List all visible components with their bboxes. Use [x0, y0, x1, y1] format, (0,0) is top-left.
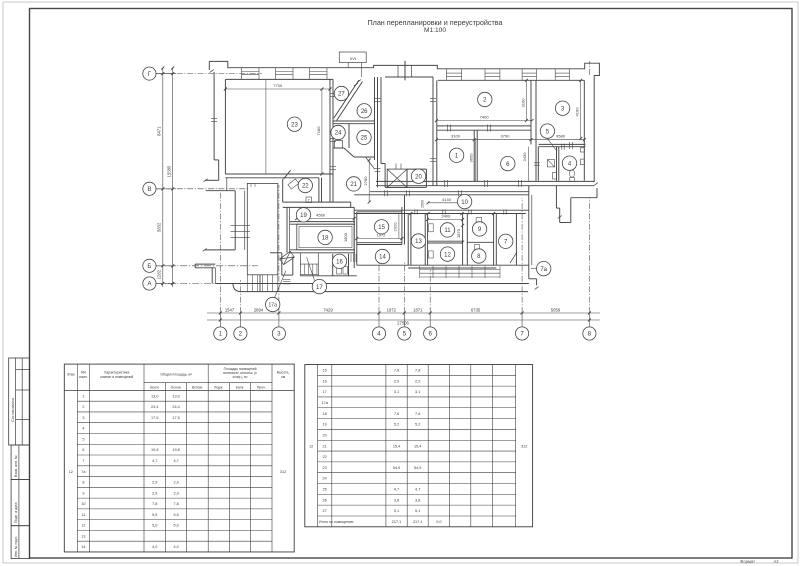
room area table part 1 [64, 364, 294, 552]
svg-text:Б: Б [147, 263, 151, 270]
dimension 7400 room 2 [436, 120, 532, 122]
room 7 right wall [515, 214, 517, 266]
dimension 3650 vertical room 1 [475, 140, 477, 182]
svg-text:21: 21 [350, 182, 357, 188]
room 16 circle [332, 254, 346, 268]
corridor 10 bottom wall [354, 209, 529, 211]
svg-text:17а: 17а [321, 401, 328, 405]
svg-text:В: В [147, 186, 151, 193]
axis 3 line [278, 185, 280, 313]
rooms 15 14 walls [353, 207, 355, 268]
svg-text:26: 26 [361, 109, 368, 115]
dimension 2780 vertical room 21 [368, 160, 370, 202]
svg-text:3430: 3430 [522, 152, 527, 162]
svg-text:20: 20 [323, 433, 327, 437]
entrance corridor bottom wall [300, 275, 356, 277]
wall between rooms 24 25 [348, 124, 350, 148]
room 23 bottom wall [225, 173, 333, 175]
room 7 door diagonal [510, 252, 517, 263]
svg-text:19: 19 [323, 423, 327, 427]
svg-text:3,8: 3,8 [394, 498, 399, 502]
svg-text:7400: 7400 [480, 114, 490, 119]
svg-text:3: 3 [277, 331, 281, 338]
svg-text:NN: NN [81, 371, 86, 375]
wall right of room 23 [329, 79, 331, 174]
svg-text:Г: Г [148, 71, 152, 78]
steps right of room 16 [350, 254, 352, 262]
svg-text:7,8: 7,8 [152, 502, 157, 506]
wall between rooms 15 14 [357, 242, 402, 244]
room 27 circle [334, 86, 348, 100]
svg-text:1870: 1870 [456, 228, 461, 238]
svg-text:217,1: 217,1 [413, 520, 423, 524]
dimension 3100 vertical rooms 2-3 [525, 80, 527, 120]
svg-text:27506: 27506 [397, 320, 409, 325]
room 1 circle [449, 148, 463, 162]
svg-text:6: 6 [428, 331, 432, 338]
svg-text:0,0: 0,0 [436, 520, 441, 524]
side stamp Подп. и дата block [11, 480, 29, 526]
axis marker 7 [516, 327, 529, 340]
svg-text:1800: 1800 [343, 232, 348, 242]
dimension 1870 vertical room 11 [461, 224, 464, 227]
left porch stub wall [195, 263, 215, 265]
svg-text:15585: 15585 [167, 165, 172, 177]
svg-text:Высота,: Высота, [277, 371, 290, 375]
lower block bottom wall [408, 264, 529, 266]
room 2 circle [478, 92, 492, 106]
wall between rooms 1 6 [473, 130, 475, 181]
leader line room 17 [307, 257, 315, 280]
svg-text:8: 8 [82, 481, 84, 485]
svg-text:2780: 2780 [363, 176, 368, 186]
svg-text:23: 23 [291, 122, 298, 128]
left wall inner [224, 79, 226, 174]
axis marker А [143, 277, 156, 290]
svg-text:Основ.: Основ. [171, 385, 182, 389]
svg-text:5,5: 5,5 [173, 513, 178, 517]
axis line Г dash-dot [156, 73, 262, 75]
svg-text:5,1: 5,1 [394, 509, 399, 513]
svg-text:Этаж: Этаж [67, 373, 76, 377]
svg-text:2,9: 2,9 [173, 491, 178, 495]
apartments bottom wall [376, 180, 594, 182]
wall under rooms 3 5 [539, 143, 586, 145]
svg-text:17,5: 17,5 [172, 416, 179, 420]
dimension 2400 room 11 [428, 219, 463, 221]
svg-text:3100: 3100 [451, 134, 461, 139]
wall between rooms 9 8 [467, 241, 493, 243]
toilet room 4 [570, 178, 575, 182]
svg-text:312: 312 [280, 470, 286, 474]
top wall outer edge [209, 61, 599, 75]
top wall inner edge left [225, 78, 333, 80]
room 20 circle [411, 169, 425, 183]
svg-text:5,0: 5,0 [152, 524, 157, 528]
svg-text:14: 14 [379, 255, 386, 261]
svg-text:2,9: 2,9 [173, 481, 178, 485]
svg-text:Вспом.: Вспом. [192, 385, 203, 389]
svg-text:6735: 6735 [471, 307, 481, 312]
room 24 circle [331, 125, 345, 139]
room 14 circle [375, 249, 389, 263]
svg-text:4,7: 4,7 [394, 488, 399, 492]
axis marker 6 [424, 327, 437, 340]
dimension 2320 vertical room 15 [398, 214, 400, 239]
axis marker 8 [583, 327, 596, 340]
svg-text:1871: 1871 [413, 307, 423, 312]
right wall inner [583, 80, 585, 180]
svg-text:4,7: 4,7 [152, 459, 157, 463]
section mark XVI [339, 52, 366, 63]
svg-text:7,6: 7,6 [394, 412, 399, 416]
door ticks room 4 [561, 144, 563, 150]
svg-text:2: 2 [239, 331, 243, 338]
svg-text:19: 19 [300, 213, 307, 219]
vent ticks shaft top [395, 164, 397, 170]
svg-text:24,4: 24,4 [151, 405, 158, 409]
dimension 4190 vertical room 3 [580, 80, 582, 138]
bathroom block left wall [537, 147, 539, 181]
svg-text:7730: 7730 [273, 83, 283, 88]
right wall bottom stoop [555, 186, 557, 208]
dimension 7730 room 23 [225, 88, 330, 90]
svg-text:19,8: 19,8 [172, 448, 179, 452]
room 7а circle [537, 261, 551, 275]
dimension 4560 corridor 19 [297, 218, 354, 220]
room 22 walls [318, 178, 320, 202]
bottom dimension line 2 total [207, 319, 600, 321]
corridor 17 steps [300, 263, 318, 265]
svg-text:Общая площадь, м²: Общая площадь, м² [160, 373, 192, 377]
svg-text:А: А [147, 281, 152, 288]
svg-text:15,4: 15,4 [393, 444, 400, 448]
staircase window [231, 225, 251, 227]
svg-text:2400: 2400 [441, 214, 451, 219]
axis marker Г [143, 67, 156, 80]
svg-text:План перепланировки и переустр: План перепланировки и переустройства [367, 18, 502, 27]
svg-text:54,9: 54,9 [414, 466, 421, 470]
wall between rooms 11 12 [428, 240, 463, 242]
top wall inner edge centre [385, 76, 433, 78]
svg-text:2: 2 [82, 405, 84, 409]
svg-text:4,7: 4,7 [173, 459, 178, 463]
svg-text:5,1: 5,1 [415, 509, 420, 513]
svg-text:коэф.), м²: коэф.), м² [233, 375, 249, 379]
svg-text:Взам. инв. №: Взам. инв. № [14, 455, 18, 477]
svg-text:Инв. № подл.: Инв. № подл. [14, 536, 18, 557]
svg-text:24: 24 [335, 131, 342, 137]
svg-text:3650: 3650 [468, 153, 473, 163]
svg-text:8: 8 [588, 331, 592, 338]
svg-text:20: 20 [415, 174, 422, 180]
svg-text:25: 25 [361, 136, 368, 142]
svg-text:Лодж.: Лодж. [214, 385, 223, 389]
svg-text:3100: 3100 [521, 98, 526, 108]
svg-text:Т: Т [308, 199, 310, 203]
svg-text:7,8: 7,8 [394, 369, 399, 373]
room 20 enclosure [406, 169, 408, 187]
svg-text:5,0: 5,0 [173, 524, 178, 528]
svg-text:1282: 1282 [157, 269, 162, 279]
svg-text:XVI: XVI [350, 56, 356, 61]
room 18 loggia walls [290, 221, 355, 223]
svg-text:4190: 4190 [575, 107, 580, 117]
dimension line rooms 1 6 5 [436, 139, 584, 141]
svg-text:1547: 1547 [225, 307, 235, 312]
svg-text:11: 11 [444, 228, 451, 234]
axis 6 line [429, 270, 431, 313]
svg-text:4: 4 [82, 427, 84, 431]
room 7 circle [499, 234, 513, 248]
svg-text:7: 7 [520, 331, 524, 338]
room 11 circle [440, 223, 454, 237]
axis marker 5 [398, 327, 411, 340]
svg-text:Подп. и дата: Подп. и дата [14, 502, 18, 523]
staircase inner wall [226, 178, 228, 191]
svg-text:2894: 2894 [254, 307, 264, 312]
dimension 7180 vertical room 23 [321, 89, 323, 174]
svg-text:9: 9 [82, 491, 84, 495]
svg-text:27: 27 [338, 92, 345, 98]
svg-text:4: 4 [377, 331, 381, 338]
staircase treads [246, 275, 248, 292]
right wall outer [593, 76, 595, 183]
axis marker 3 [272, 327, 285, 340]
svg-text:1500: 1500 [421, 200, 425, 208]
svg-text:1: 1 [82, 394, 84, 398]
axis line В dash-dot [156, 188, 248, 190]
svg-text:17,5: 17,5 [151, 416, 158, 420]
svg-text:24: 24 [323, 477, 327, 481]
svg-text:2,0: 2,0 [394, 379, 399, 383]
room 15 circle [374, 220, 388, 234]
svg-text:5,2: 5,2 [394, 423, 399, 427]
east wall lower block [528, 186, 530, 279]
leader line room 7а [531, 268, 536, 270]
dimension 4140 corridor 10 [428, 202, 465, 204]
axis 5 line [403, 262, 405, 313]
svg-text:217,1: 217,1 [392, 520, 402, 524]
vestibule outside steps [283, 279, 291, 281]
svg-text:10: 10 [81, 502, 85, 506]
vent box room 4 [581, 159, 585, 165]
svg-text:1: 1 [219, 331, 223, 338]
room 21 circle [347, 177, 361, 191]
svg-text:7: 7 [82, 459, 84, 463]
svg-text:22: 22 [302, 184, 309, 190]
svg-text:15,4: 15,4 [414, 444, 421, 448]
vent shaft walls [384, 164, 386, 188]
vent box room 24 [335, 141, 343, 149]
svg-text:5,5: 5,5 [152, 513, 157, 517]
svg-text:6: 6 [82, 448, 84, 452]
svg-text:24,4: 24,4 [172, 405, 179, 409]
room 14 bottom [357, 264, 408, 266]
room 6 circle [501, 156, 515, 170]
axis 7 line [521, 198, 523, 313]
svg-text:комнат и помещений: комнат и помещений [100, 375, 133, 379]
room 8 circle [472, 249, 486, 263]
room area table part 2 [305, 365, 533, 527]
left wall step [214, 159, 219, 161]
staircase shaft [247, 183, 277, 274]
svg-text:18: 18 [322, 236, 329, 242]
windows room 23 facade [241, 68, 243, 80]
svg-text:Проч.: Проч. [257, 385, 266, 389]
svg-text:2,9: 2,9 [152, 491, 157, 495]
svg-text:16: 16 [336, 260, 343, 266]
room 16 fixtures [337, 267, 342, 275]
elevator shaft [387, 169, 407, 187]
svg-text:7180: 7180 [316, 126, 321, 136]
axis 8 line [588, 198, 590, 313]
room 16 enclosure [332, 254, 334, 276]
room 22 door leaf [288, 179, 299, 189]
rooms 24 25 bottom wall [333, 147, 344, 149]
svg-text:3: 3 [82, 416, 84, 420]
svg-text:19,8: 19,8 [151, 448, 158, 452]
axis line А dash-dot [156, 283, 300, 285]
svg-text:15: 15 [323, 369, 327, 373]
svg-text:Итого по помещению: Итого по помещению [319, 520, 354, 524]
top wall inner edge right [438, 79, 585, 81]
svg-text:см: см [281, 375, 286, 379]
axis marker 2 [234, 327, 247, 340]
svg-text:21: 21 [323, 444, 327, 448]
svg-text:2320: 2320 [393, 222, 398, 232]
svg-text:7,8: 7,8 [415, 369, 420, 373]
stair flight marks [250, 183, 252, 187]
svg-text:4,0: 4,0 [152, 545, 157, 549]
wall under room 2 [437, 125, 531, 127]
central facade mullions [397, 65, 399, 77]
svg-text:5059: 5059 [551, 307, 561, 312]
svg-text:3,1: 3,1 [415, 390, 420, 394]
svg-text:Всего: Всего [150, 385, 159, 389]
svg-text:15: 15 [378, 225, 385, 231]
svg-text:7429: 7429 [323, 307, 333, 312]
svg-text:7а: 7а [540, 267, 547, 273]
svg-text:4560: 4560 [316, 213, 326, 218]
wall under rooms 27 26 [333, 120, 375, 122]
room 9 circle [472, 222, 486, 236]
axis 2 line [239, 280, 241, 313]
room 18 circle [318, 230, 332, 244]
left vertical dimension lines [162, 68, 164, 287]
svg-text:12: 12 [69, 470, 73, 474]
corridor 19 walls [283, 201, 351, 203]
T box [306, 197, 312, 203]
svg-text:7,8: 7,8 [173, 502, 178, 506]
svg-text:54,9: 54,9 [393, 466, 400, 470]
axis marker 4 [372, 327, 385, 340]
room 12 circle [440, 247, 454, 261]
svg-text:25: 25 [323, 488, 327, 492]
svg-text:М1:100: М1:100 [424, 27, 446, 34]
room 10 circle [457, 194, 471, 208]
svg-text:2,9: 2,9 [152, 481, 157, 485]
svg-text:26: 26 [323, 498, 327, 502]
axis 4 line [378, 252, 380, 313]
svg-text:13,0: 13,0 [151, 394, 158, 398]
svg-text:4,0: 4,0 [173, 545, 178, 549]
shower symbol [547, 160, 554, 167]
svg-text:9580: 9580 [556, 134, 566, 139]
svg-text:23: 23 [323, 466, 327, 470]
room 25 circle [357, 130, 371, 144]
svg-text:17: 17 [316, 285, 323, 291]
room 17а circle [266, 297, 280, 311]
svg-text:17: 17 [323, 390, 327, 394]
svg-text:3,1: 3,1 [394, 390, 399, 394]
bathroom partition [556, 147, 558, 181]
dimension 3430 vertical room 6 [527, 147, 529, 182]
svg-text:12: 12 [444, 252, 451, 258]
svg-text:5,2: 5,2 [415, 423, 420, 427]
south facade steps [420, 269, 500, 271]
svg-text:Характеристика: Характеристика [104, 371, 129, 375]
svg-text:18: 18 [323, 412, 327, 416]
svg-text:5832: 5832 [157, 222, 162, 232]
side stamp Согласовано block [9, 358, 30, 445]
wall between rooms 2 3 [530, 80, 532, 144]
svg-text:7,6: 7,6 [415, 412, 420, 416]
fixtures lower block [429, 224, 434, 232]
bottom dimension line 1 [207, 312, 600, 314]
svg-text:13: 13 [415, 239, 422, 245]
diagonal wall room 27-26 [334, 80, 359, 118]
svg-text:3,8: 3,8 [415, 498, 420, 502]
svg-text:8471: 8471 [157, 126, 162, 136]
room 19 circle [296, 208, 310, 222]
svg-text:11: 11 [81, 513, 85, 517]
svg-text:5: 5 [82, 437, 84, 441]
corridor 10 top wall [370, 191, 529, 193]
svg-text:Балк.: Балк. [236, 385, 245, 389]
room 17 circle [312, 279, 326, 293]
entrance vestibule [281, 253, 283, 275]
svg-text:16: 16 [323, 379, 327, 383]
room 23 interior [265, 79, 267, 174]
svg-text:1972: 1972 [387, 307, 397, 312]
svg-text:4,7: 4,7 [415, 488, 420, 492]
room 23 circle [287, 117, 301, 131]
room 22 circle [298, 178, 312, 192]
svg-text:А2: А2 [773, 559, 779, 564]
leader line room 17а [275, 271, 286, 298]
svg-text:12: 12 [309, 444, 313, 448]
axis 1 line [219, 192, 221, 313]
room 13 circle [411, 234, 425, 248]
bottom facade wall [215, 283, 529, 285]
left wall outer [208, 61, 210, 70]
wall left of vestibule [270, 252, 282, 254]
side stamp Инв. № подл. block [11, 526, 29, 559]
svg-text:27: 27 [323, 509, 327, 513]
lower block walls [407, 214, 409, 266]
rooms 26 27 right wall [374, 77, 376, 160]
svg-text:13: 13 [81, 534, 85, 538]
svg-text:17а: 17а [269, 303, 278, 309]
svg-text:Формат: Формат [740, 559, 755, 564]
washbasin room 5 [553, 173, 557, 180]
svg-text:комн.: комн. [79, 375, 88, 379]
svg-text:22: 22 [323, 455, 327, 459]
svg-text:2,0: 2,0 [415, 379, 420, 383]
axis line Б dash-dot [156, 265, 258, 267]
leader room 5 [547, 138, 556, 150]
